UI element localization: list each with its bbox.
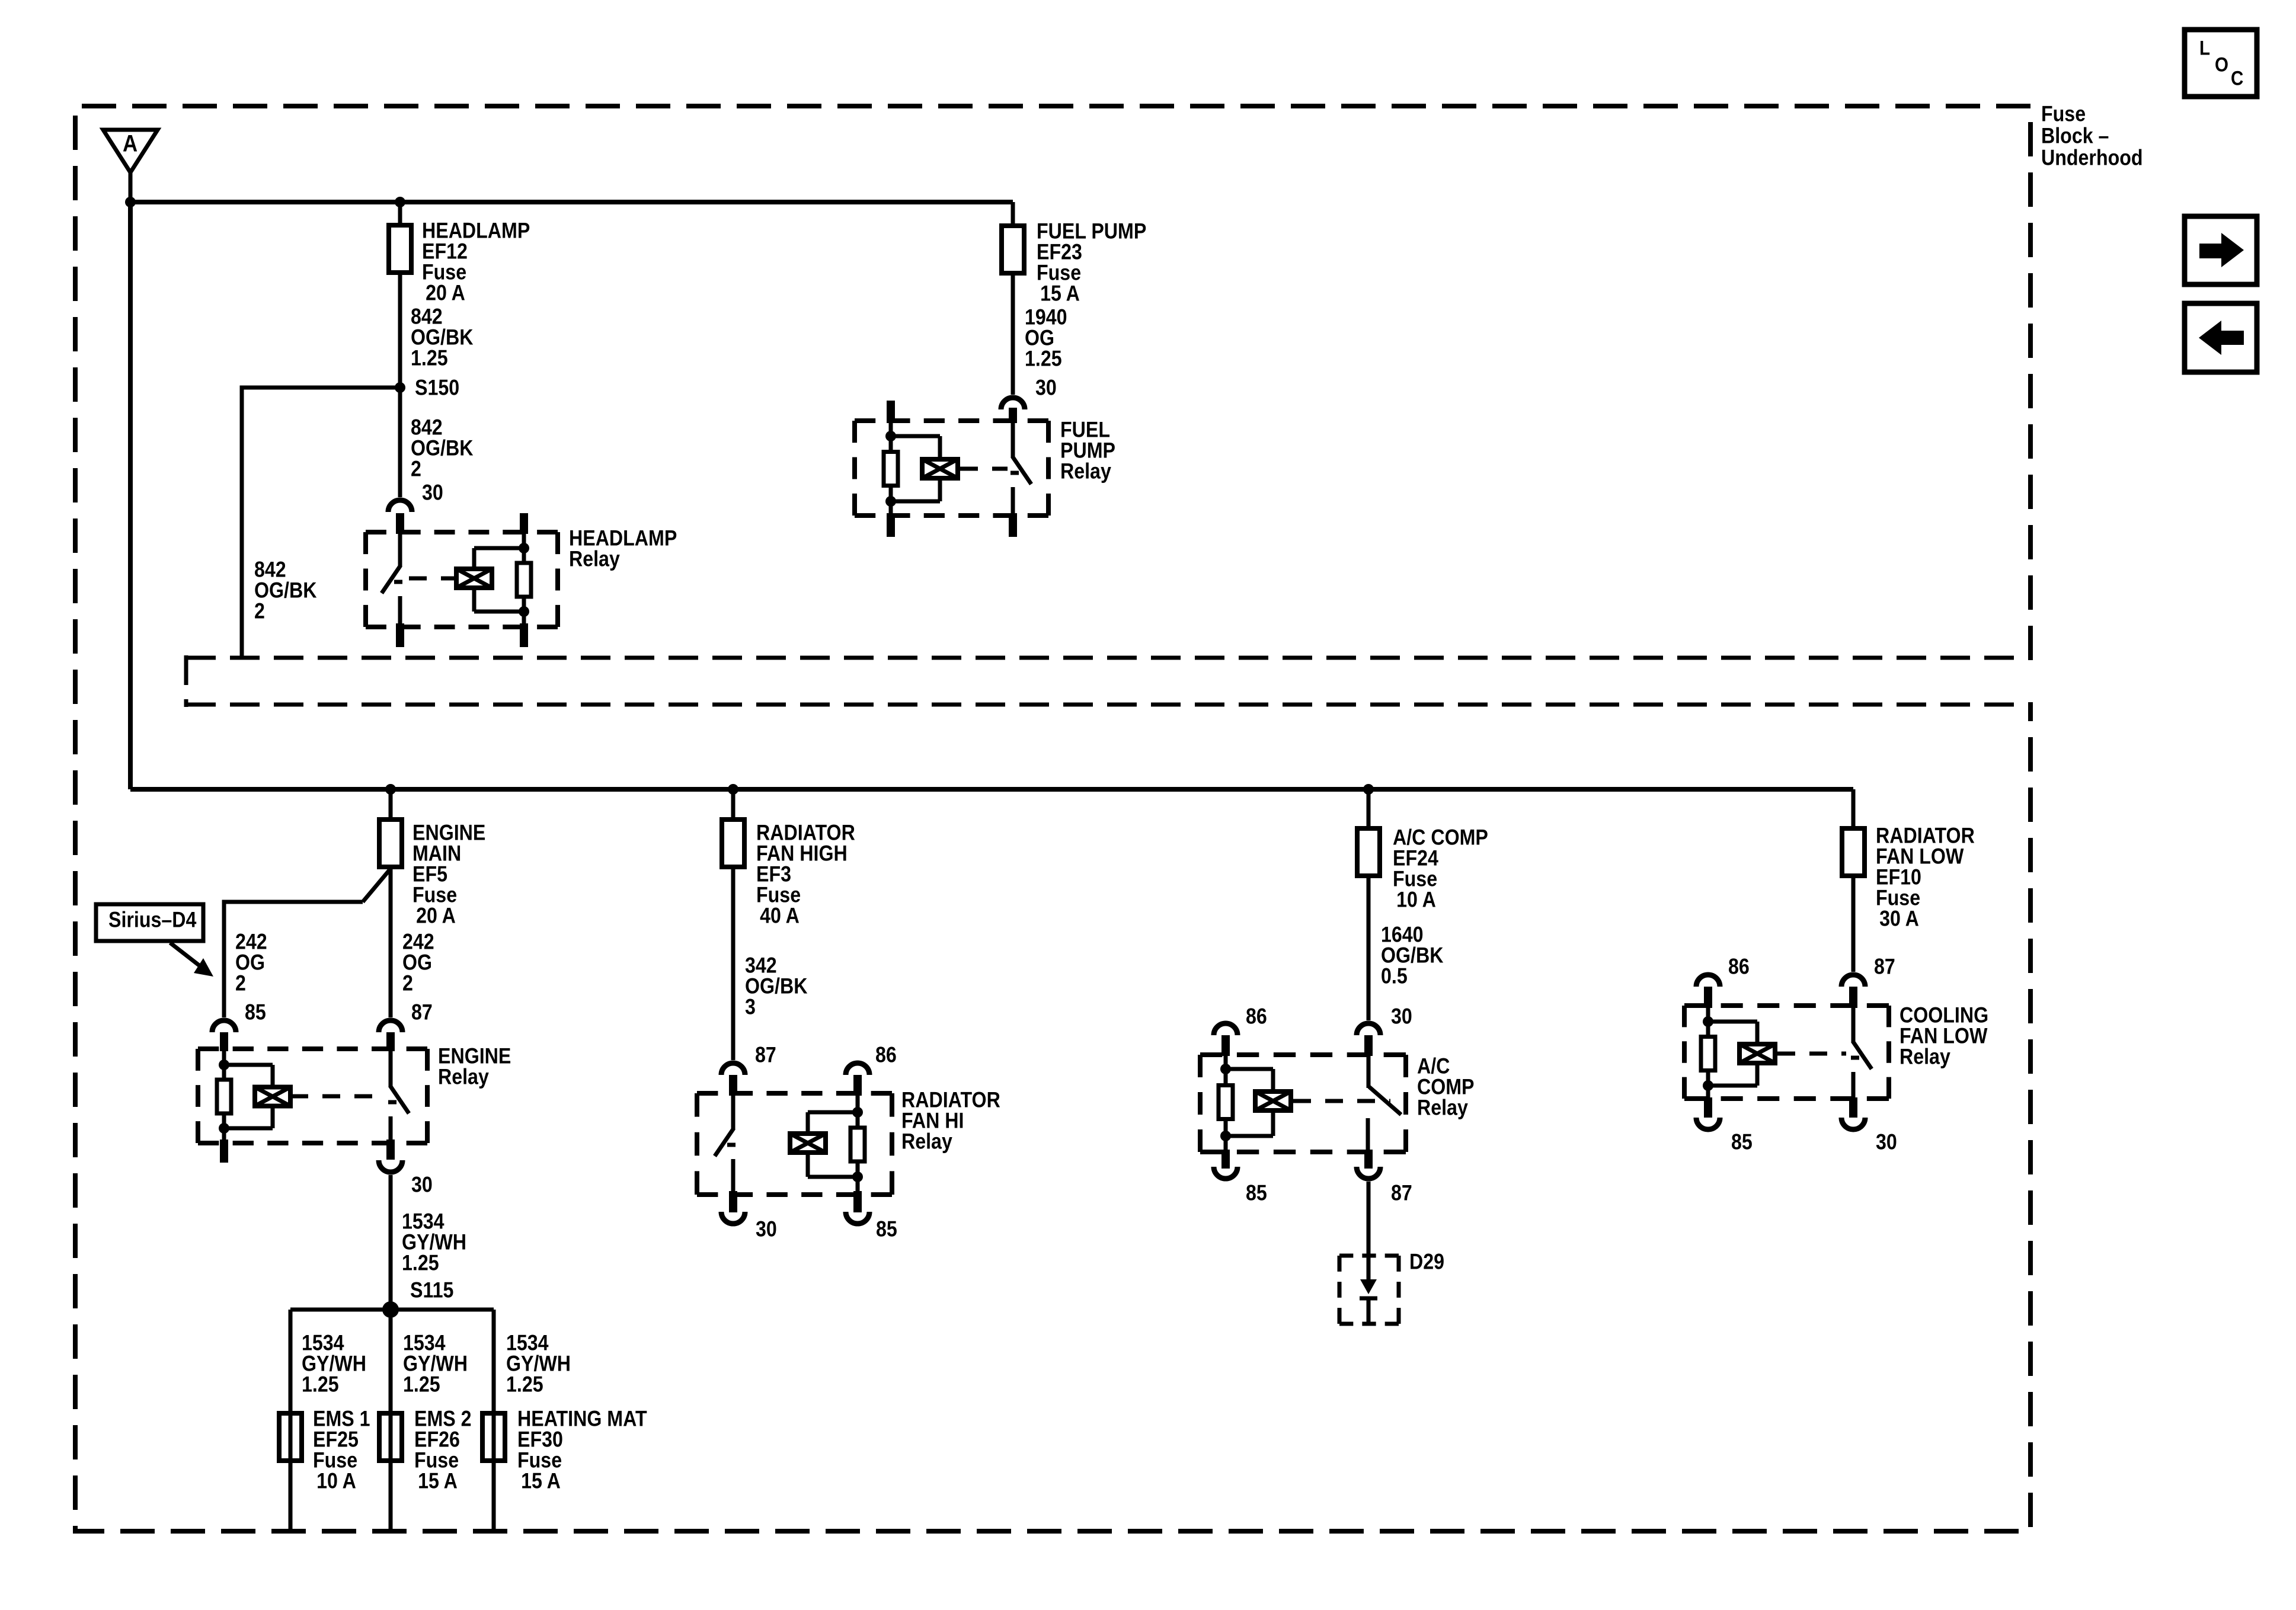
- svg-text:30: 30: [756, 1217, 777, 1241]
- svg-text:87: 87: [1874, 955, 1895, 979]
- svg-text:Fuse: Fuse: [2041, 102, 2086, 126]
- svg-text:O: O: [2215, 53, 2228, 76]
- svg-text:86: 86: [1246, 1004, 1267, 1029]
- svg-text:87: 87: [755, 1043, 776, 1067]
- svg-text:30: 30: [1391, 1004, 1412, 1029]
- svg-text:Underhood: Underhood: [2041, 146, 2143, 170]
- svg-text:FUELPUMPRelay: FUELPUMPRelay: [1060, 418, 1115, 484]
- svg-text:85: 85: [1246, 1181, 1267, 1205]
- svg-text:30: 30: [1035, 376, 1057, 400]
- svg-text:85: 85: [1731, 1130, 1753, 1154]
- svg-text:87: 87: [1391, 1181, 1412, 1205]
- svg-text:85: 85: [876, 1217, 897, 1241]
- svg-text:Block –: Block –: [2041, 124, 2109, 148]
- svg-text:C: C: [2231, 67, 2243, 89]
- svg-text:A: A: [123, 130, 137, 156]
- svg-text:L: L: [2199, 37, 2210, 59]
- svg-text:30: 30: [422, 481, 443, 505]
- svg-text:S115: S115: [410, 1278, 453, 1302]
- svg-text:Sirius–D4: Sirius–D4: [108, 908, 197, 932]
- svg-text:30: 30: [411, 1173, 433, 1197]
- svg-text:85: 85: [245, 1000, 266, 1025]
- svg-text:86: 86: [875, 1043, 897, 1067]
- svg-text:87: 87: [411, 1000, 433, 1025]
- svg-text:S150: S150: [415, 376, 459, 400]
- svg-text:30: 30: [1876, 1130, 1897, 1154]
- svg-text:86: 86: [1728, 955, 1750, 979]
- svg-text:D29: D29: [1409, 1250, 1444, 1274]
